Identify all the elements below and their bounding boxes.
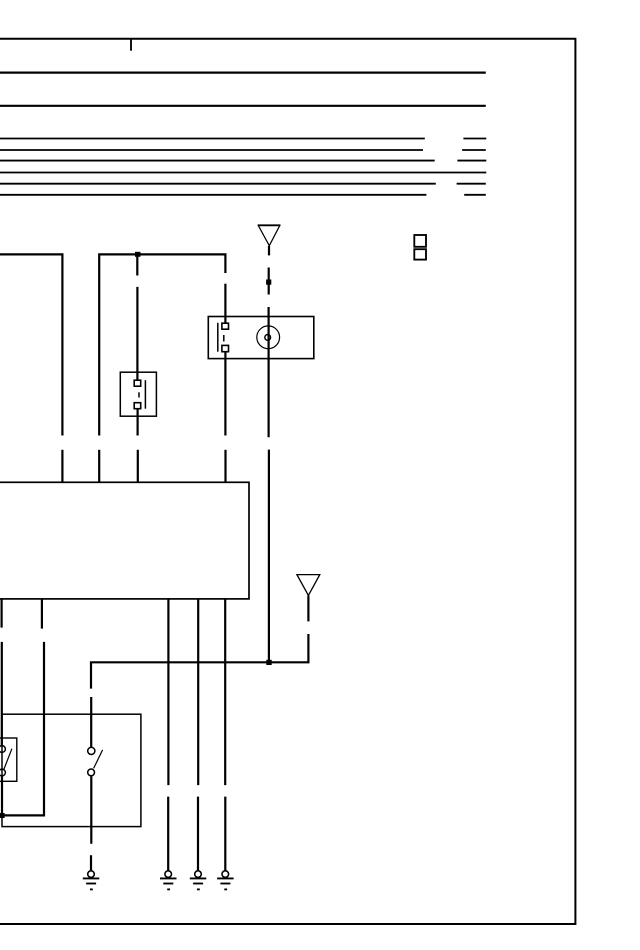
wire lamp bulb down to junction J2 [268, 450, 270, 663]
pin square top (lamp assembly) [222, 323, 229, 329]
ECU pin wire to switch common (x=42) [2, 599, 44, 816]
wire right switch to ground G1 [90, 776, 93, 871]
junction J2 (lamp return joins link) [266, 660, 271, 665]
ECU ground wire 1 (x=168) [167, 599, 169, 871]
dashed link between pins (lamp assembly) [223, 335, 225, 342]
right switch upper contact [88, 747, 95, 754]
ground G1 [83, 871, 100, 890]
junction splice on lamp feed wire [266, 280, 271, 285]
wire left switch to return bar [1, 776, 3, 816]
ECU ground wire 2 (x=198) [197, 599, 199, 871]
power bus wire (left, y=254) [0, 254, 62, 482]
contact bar (S1) [144, 380, 146, 409]
right switch blade [94, 750, 103, 769]
connector bar inside lamp assembly [217, 323, 219, 352]
power bus wire (center span) [99, 254, 225, 482]
link wire y=662 to switch assembly [91, 661, 308, 747]
dashed actuator link (S1) [138, 392, 140, 397]
left switch blade [4, 749, 12, 770]
wire from lower connector down to link [307, 595, 309, 662]
ECU ground wire 3 (x=225) [224, 599, 226, 871]
right switch lower contact [88, 769, 95, 776]
wire from J1 down to switch S1 [136, 254, 138, 380]
wire S1 to control unit [137, 409, 139, 483]
connector box around left switch [0, 738, 17, 781]
ground G3 [190, 871, 207, 890]
ECU pin wire to left switch (x=2) [1, 599, 3, 746]
pin square top (S1) [134, 380, 141, 386]
ground G4 [217, 871, 234, 890]
lamp assembly box U1 [208, 317, 313, 359]
lamp bulb L1 [257, 326, 280, 349]
left switch lower contact [0, 769, 5, 776]
left switch upper contact [0, 746, 5, 753]
page connector triangle (top) [258, 225, 280, 245]
junction at switch return corner [0, 813, 5, 818]
pin square bottom (S1) [134, 403, 141, 409]
switch S1 box [120, 372, 156, 416]
ground G2 [160, 871, 177, 890]
control unit (ECU) box [0, 482, 249, 599]
wire lamp-assembly pin to control unit [224, 352, 226, 483]
wire from top connector down to lamp [268, 246, 271, 437]
page connector triangle (lower right) [297, 575, 320, 596]
switch assembly box [2, 714, 141, 826]
pin square bottom (lamp assembly) [222, 345, 229, 351]
junction J1 on bus [135, 252, 140, 257]
